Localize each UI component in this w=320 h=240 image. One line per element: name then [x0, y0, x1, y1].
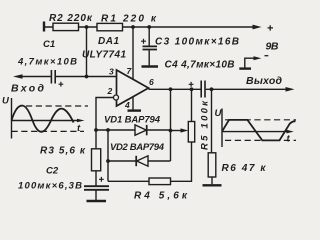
- svg-text:R3 5,6 к: R3 5,6 к: [40, 146, 86, 157]
- node junction rail-pin7: [131, 25, 135, 29]
- svg-text:Выход: Выход: [246, 75, 283, 87]
- right waveform graph axes: [222, 109, 288, 148]
- svg-text:9 В: 9 В: [266, 41, 279, 53]
- wire C2 to ground: [95, 190, 97, 200]
- ground C3: [142, 65, 159, 67]
- node junction bias-input: [85, 75, 89, 79]
- node junction output-R6: [210, 87, 214, 91]
- pin 2 inversion bubble: [114, 95, 119, 100]
- diode VD1: [135, 125, 146, 135]
- right graph clipped wave: [222, 120, 295, 140]
- svg-text:3: 3: [109, 67, 114, 77]
- arrow left graph t-axis: [77, 119, 85, 123]
- ground minus terminal: [239, 67, 251, 69]
- right graph dashed clip level top: [225, 119, 296, 121]
- diode VD2: [137, 156, 148, 166]
- wire VD2 line: [108, 160, 170, 162]
- svg-text:R2 220к: R2 220к: [49, 13, 93, 24]
- wire C1 to pin3: [56, 76, 117, 78]
- label C4 plus: [189, 82, 194, 87]
- wire R5 top: [191, 89, 193, 121]
- svg-text:С4 4,7мк×10В: С4 4,7мк×10В: [165, 60, 235, 71]
- pin 7 wire: [132, 27, 134, 80]
- node junction rail-C3: [147, 25, 151, 29]
- label C2 plus: [99, 177, 104, 182]
- node rail left terminal bar: [43, 22, 45, 32]
- svg-text:DA1: DA1: [98, 36, 119, 47]
- left graph dashed clip level bottom: [12, 130, 85, 132]
- svg-text:VD1 BAP794: VD1 BAP794: [104, 115, 161, 126]
- arrow R5 wiper: [181, 128, 189, 132]
- wire R4 to R5 bottom: [171, 142, 192, 181]
- capacitor C1: [51, 70, 55, 84]
- pin 2 wire: [96, 98, 113, 131]
- node junction output-R5: [190, 87, 194, 91]
- left graph dashed clip level top: [26, 105, 88, 107]
- resistor R2: [53, 23, 79, 30]
- arrow right graph t-axis: [287, 130, 294, 134]
- arrow minus terminal: [254, 56, 262, 60]
- capacitor C4: [201, 81, 205, 98]
- svg-text:U: U: [2, 96, 10, 107]
- capacitor C3: [143, 46, 158, 49]
- capacitor C2: [84, 186, 109, 190]
- node junction VD2-branch: [106, 159, 110, 163]
- svg-text:R6 47 к: R6 47 к: [222, 163, 267, 174]
- wire R6 drop: [211, 89, 213, 153]
- svg-text:С2: С2: [46, 166, 59, 177]
- node junction rail-R2R1: [85, 25, 89, 29]
- wire feedback vertical: [170, 89, 172, 161]
- left waveform graph axes: [12, 98, 80, 139]
- resistor R5 potentiometer: [188, 122, 194, 143]
- arrow +9V terminal: [253, 25, 262, 30]
- ground C2: [87, 200, 107, 202]
- wire pin2 node to R3: [95, 130, 97, 149]
- arrow output terminal: [286, 87, 295, 92]
- capacitor C3 drop wire: [148, 27, 150, 46]
- arrow input terminal: [13, 74, 23, 79]
- right graph dashed clip level bottom: [225, 139, 296, 141]
- resistor R1: [97, 23, 123, 30]
- ground pin4: [128, 109, 142, 111]
- wire R6 to ground: [211, 177, 213, 184]
- wire minus terminal: [245, 58, 254, 68]
- svg-text:2: 2: [107, 86, 113, 96]
- svg-text:4: 4: [124, 100, 130, 110]
- resistor R4: [149, 178, 171, 185]
- left graph sine wave: [12, 106, 74, 132]
- svg-text:100мк×6,3В: 100мк×6,3В: [18, 181, 82, 192]
- svg-text:ULY7741: ULY7741: [82, 50, 126, 61]
- node junction output-feedback: [169, 87, 173, 91]
- node junction VD1-feedback: [169, 129, 173, 133]
- label minus supply: [265, 55, 269, 57]
- wire +9V top rail: [44, 26, 254, 28]
- svg-text:6: 6: [149, 77, 154, 87]
- wire C3 to ground: [148, 50, 150, 66]
- node junction pin2-R3: [94, 128, 98, 132]
- svg-text:С1: С1: [43, 39, 55, 50]
- wire to R4: [108, 180, 149, 182]
- label plus supply: [268, 25, 274, 30]
- resistor R3: [92, 149, 101, 171]
- svg-text:U: U: [215, 108, 223, 119]
- svg-text:VD2 BAP794: VD2 BAP794: [110, 142, 165, 153]
- op-amp DA1: [117, 70, 149, 106]
- wire C4 to output terminal: [206, 88, 286, 90]
- wire R3 to C2: [95, 171, 97, 186]
- wire bias divider vertical to pin3 node: [86, 27, 88, 77]
- resistor R6: [208, 153, 216, 177]
- label C3 plus: [141, 39, 146, 44]
- svg-text:Вход: Вход: [11, 83, 45, 95]
- svg-text:С3 100мк×16В: С3 100мк×16В: [155, 37, 239, 48]
- wire VD2 branch vertical: [107, 130, 109, 181]
- pin 4 wire: [132, 97, 134, 110]
- node junction VD1-branch: [106, 128, 110, 132]
- wire input with arrow: [20, 76, 51, 78]
- label C1 plus: [59, 82, 64, 87]
- wire output pin6: [149, 88, 201, 90]
- wire VD1 line: [96, 129, 171, 131]
- wire wiper arrow: [171, 130, 182, 132]
- ground R6: [203, 184, 222, 186]
- svg-text:4,7мк×10В: 4,7мк×10В: [17, 57, 77, 68]
